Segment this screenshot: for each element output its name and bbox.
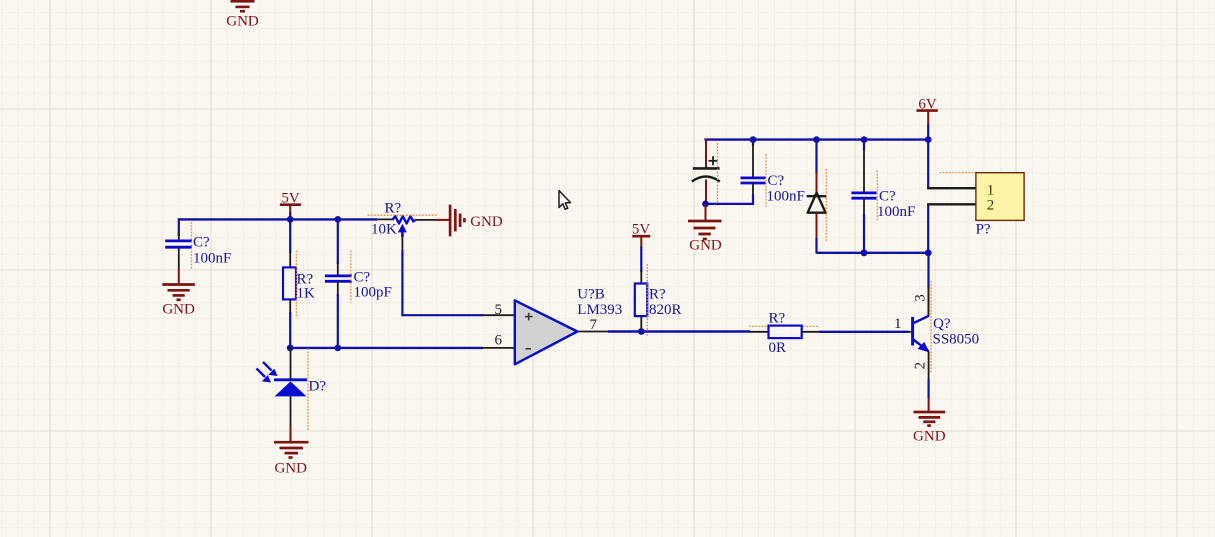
svg-text:R?: R? (649, 287, 666, 303)
svg-text:0R: 0R (769, 340, 787, 356)
svg-text:820R: 820R (649, 302, 682, 318)
svg-text:GND: GND (226, 14, 259, 30)
wire D? anode lead from junction (290, 348, 292, 380)
svg-text:GND: GND (913, 429, 946, 445)
wire 5V to R? 820R (640, 247, 642, 273)
pin lead right of potentiometer (415, 219, 436, 221)
svg-text:U?B: U?B (577, 287, 605, 303)
ground GND below left capacitor (162, 285, 195, 318)
pin lead below capacitor C? 100nF left (178, 247, 180, 269)
pin lead bottom of R? 1K (289, 299, 291, 314)
node junction bottom bus at C2 (861, 249, 868, 256)
svg-text:100pF: 100pF (354, 285, 392, 301)
svg-text:GND: GND (274, 461, 307, 477)
node junction top bus at C1 (750, 136, 757, 143)
node junction top bus at diode (813, 136, 820, 143)
ground GND rotated (right of potentiometer) (435, 205, 503, 237)
power port 5V (left) (280, 191, 301, 214)
svg-text:GND: GND (689, 238, 722, 254)
svg-text:100nF: 100nF (877, 204, 915, 220)
svg-text:GND: GND (470, 214, 503, 230)
ground lead dark red below left cap (178, 268, 180, 284)
marker squiggle near C? 100pF (350, 251, 352, 303)
resistor R? 1K (283, 267, 296, 299)
pin 5 lead of op-amp (482, 314, 516, 316)
marker squiggle near Q? (930, 281, 932, 373)
wire 6V riser to connector pin 1 (927, 140, 929, 189)
svg-text:100nF: 100nF (767, 189, 805, 205)
node junction bottom bus at collector riser (925, 249, 932, 256)
svg-text:6: 6 (495, 333, 503, 349)
wire from junction down to R? 1K (289, 219, 291, 253)
wire lower horizontal net to op-amp pin 6 (290, 347, 483, 349)
node junction top bus at 6V (925, 136, 932, 143)
power port 5V (above 820R) (632, 222, 651, 249)
wire from top junction down to C? 100pF (337, 219, 339, 264)
marker squiggle near second 100nF (876, 171, 878, 222)
wire top-left horizontal net (179, 218, 377, 220)
svg-text:C?: C? (354, 270, 371, 286)
collector pin upper black segment (928, 286, 930, 317)
node junction output at 820R (638, 328, 645, 335)
node junction top bus at C2 (861, 136, 868, 143)
marker squiggle near R? 820R (646, 264, 648, 336)
svg-text:D?: D? (309, 379, 327, 395)
marker squiggle near R? 1K (295, 251, 297, 319)
svg-text:LM393: LM393 (577, 302, 622, 318)
marker squiggle near P? (940, 172, 976, 174)
node junction C100pF top (334, 216, 341, 223)
svg-text:SS8050: SS8050 (933, 332, 980, 348)
marker squiggle near electrolytic (717, 143, 719, 207)
capacitor C? 100nF (top right first) (741, 140, 766, 205)
pin 1 lead into transistor base (907, 331, 912, 333)
svg-text:10K: 10K (371, 222, 397, 238)
emitter pin lead down (928, 352, 930, 382)
connector P? (976, 173, 1024, 221)
svg-text:5: 5 (495, 302, 503, 318)
pin 7 lead of op-amp (577, 331, 610, 333)
ground GND top (partially cut off) (226, 1, 259, 29)
node junction lower wire at x338 (334, 345, 341, 352)
svg-text:Q?: Q? (933, 316, 951, 332)
wire from wiper down and to op-amp pin 5 (401, 235, 483, 315)
pin 1 lead of connector P? (927, 187, 976, 189)
svg-text:R?: R? (385, 201, 402, 217)
wire connector pin 2 down to bottom bus (927, 204, 929, 253)
pin lead bottom of C? 100pF (337, 281, 339, 296)
wire output net op-amp to R? 0R (608, 330, 750, 332)
svg-text:C?: C? (193, 235, 210, 251)
marker squiggle near diode (825, 169, 827, 242)
node junction lower wire at x290 (287, 345, 294, 352)
svg-text:GND: GND (162, 302, 195, 318)
transistor Q? SS8050 (913, 316, 930, 352)
svg-text:3: 3 (912, 294, 928, 302)
svg-text:2: 2 (987, 198, 995, 214)
pin lead right of R? 0R (802, 331, 821, 333)
svg-text:100nF: 100nF (193, 251, 231, 267)
svg-text:1K: 1K (297, 286, 316, 302)
pin 2 lead of connector P? (927, 203, 976, 205)
ground GND below photodiode D? (274, 442, 309, 476)
ground GND below transistor (913, 412, 946, 445)
marker squiggle near left C? (191, 222, 193, 269)
pin 6 lead of op-amp (482, 347, 516, 349)
wire emitter down (927, 379, 929, 399)
wire C? 100pF down to lower junction (337, 294, 339, 348)
pin lead bottom of R? 820R (640, 316, 642, 331)
capacitor C? 100pF (325, 276, 352, 281)
power port 6V (917, 97, 938, 127)
wire 5V down to junction (289, 213, 291, 221)
marker squiggle near D? (307, 348, 309, 430)
wire top bus horizontal (704, 138, 928, 140)
wire 6V down to top bus (927, 125, 929, 141)
pin lead top of R? 820R (640, 270, 642, 284)
mouse cursor (559, 191, 571, 210)
svg-text:C?: C? (768, 173, 785, 189)
pin lead left of R? 0R (749, 331, 769, 333)
pin lead top of R? 1K (289, 251, 291, 267)
wire R? 1K down to lower junction (289, 312, 291, 348)
svg-text:2: 2 (912, 362, 928, 370)
ground GND below electrolytic (688, 221, 722, 254)
marker squiggle above potentiometer (368, 214, 438, 216)
svg-text:R?: R? (769, 311, 786, 327)
node junction electrolytic bottom (702, 201, 709, 208)
resistor R? 820R (635, 284, 647, 317)
photodiode D? (257, 362, 308, 426)
ground lead dark red below Q? (928, 398, 930, 413)
electrolytic capacitor C? (polarized) (692, 138, 720, 204)
wire bottom bus down to collector (927, 253, 929, 288)
pin lead into capacitor C? 100nF left (178, 232, 180, 241)
potentiometer R? 10K (392, 216, 415, 237)
diode (top right) (807, 140, 827, 254)
op-amp U?B LM393 (515, 300, 578, 364)
marker squiggle near first 100nF (765, 154, 767, 207)
svg-text:1: 1 (987, 183, 995, 199)
marker squiggle right of R? 0R (803, 325, 819, 327)
svg-text:1: 1 (894, 316, 902, 332)
resistor R? 0R (769, 326, 802, 339)
ground lead dark red below D? (290, 425, 292, 442)
node junction at 5V / top wire (287, 216, 294, 223)
marker squiggle left of R? 0R (749, 325, 768, 327)
svg-text:P?: P? (976, 222, 991, 238)
capacitor C? 100nF (left) (165, 241, 192, 247)
wire R? 0R to transistor base (819, 331, 909, 333)
pin lead into potentiometer left (375, 218, 392, 220)
wire bottom bus horizontal (817, 252, 929, 254)
ground lead dark red below electrolytic (705, 204, 707, 222)
pin lead top of C? 100pF (337, 262, 339, 276)
collector pin lead up (928, 288, 930, 316)
svg-text:C?: C? (879, 189, 896, 205)
wire electrolytic bottom to C1 bottom (706, 203, 754, 205)
wire left cap vertical lead upper (178, 218, 180, 236)
capacitor C? 100nF (top right second) (851, 140, 876, 254)
